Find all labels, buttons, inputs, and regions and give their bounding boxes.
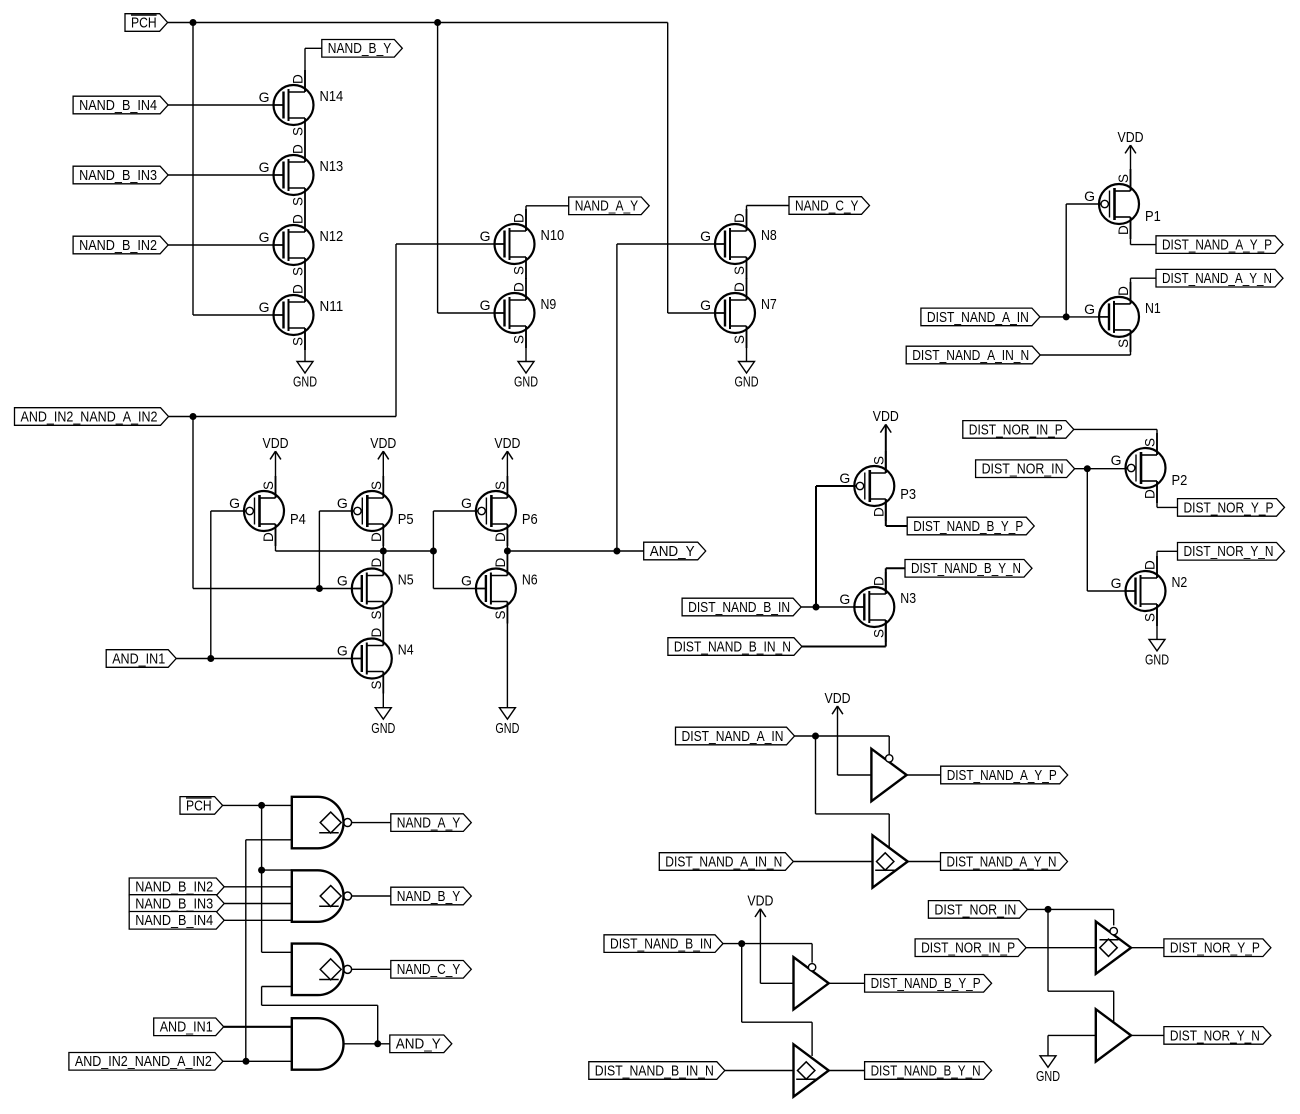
wire AND_IN2 to AND gate [223,1060,292,1062]
svg-text:PCH: PCH [131,15,157,31]
svg-text:G: G [259,89,270,105]
power symbol VDD above P5 [370,436,396,459]
wire N6 source to GND [506,602,508,708]
svg-text:N6: N6 [522,572,538,589]
svg-text:P4: P4 [290,511,306,528]
svg-text:D: D [291,214,306,224]
wire PCH to N7 gate [668,23,725,314]
transistor N9 [480,278,557,348]
hierarchical label DIST_NOR_Y_N [1178,543,1285,561]
svg-text:NAND_C_Y: NAND_C_Y [397,962,461,978]
svg-text:DIST_NAND_A_IN: DIST_NAND_A_IN [682,729,784,745]
svg-text:PCH: PCH [186,798,212,814]
svg-text:DIST_NAND_B_IN_N: DIST_NAND_B_IN_N [674,639,791,655]
svg-text:D: D [369,558,384,568]
svg-text:G: G [1084,188,1095,204]
wire P5 gate from N5 gate [319,511,353,589]
svg-text:N1: N1 [1145,300,1161,317]
wire NAND_C_Y to N8 drain [747,206,790,232]
svg-text:N7: N7 [761,296,777,313]
svg-text:NAND_B_IN2: NAND_B_IN2 [79,238,157,254]
svg-text:DIST_NAND_A_IN_N: DIST_NAND_A_IN_N [665,854,782,870]
svg-text:GND: GND [514,375,538,391]
svg-text:GND: GND [371,721,395,737]
wire DIST_NAND_B_IN to buffer B_N top pin [742,944,812,1056]
wire VDD to buffer B_P input [760,909,793,984]
hierarchical label DIST_NAND_B_IN_N [668,638,802,656]
hierarchical label DIST_NAND_A_IN buffer [676,727,795,745]
svg-text:G: G [839,470,850,486]
svg-text:S: S [291,337,306,346]
junction DIST_NOR_IN buffer [1045,906,1052,913]
hierarchical label DIST_NOR_Y_P buffer [1164,939,1271,957]
wire buffer out to DIST_NOR_Y_P [1131,947,1164,949]
hierarchical label AND_IN1 [106,650,176,668]
svg-text:D: D [261,532,276,542]
svg-text:D: D [512,282,527,292]
svg-text:NAND_B_IN2: NAND_B_IN2 [135,880,213,896]
hierarchical label DIST_NAND_B_Y_N buffer [865,1062,992,1080]
hierarchical label AND_IN2_NAND_A_IN2 gates [69,1053,223,1071]
svg-text:GND: GND [735,375,759,391]
and gate AND_D [292,1018,344,1069]
hierarchical label DIST_NOR_IN_P [963,421,1074,439]
wire vertical AND_Y to N8 gate [616,244,618,551]
wire NAND_A input B [246,839,292,841]
svg-text:NAND_B_Y: NAND_B_Y [397,889,461,905]
wire AND_IN1 to P4 gate [211,511,246,659]
wire to N6 gate [433,588,486,590]
svg-text:P6: P6 [522,511,538,528]
transistor P5 [337,476,414,546]
wire NAND_B_IN4 to N14 gate [168,104,284,106]
ground at buffer NOR_N input [1036,1056,1060,1085]
svg-text:NAND_B_IN4: NAND_B_IN4 [79,98,157,114]
svg-text:S: S [871,456,886,465]
svg-text:VDD: VDD [494,436,520,452]
wire DIST_NAND_B_IN to N3 gate [801,606,864,608]
svg-text:D: D [291,144,306,154]
svg-text:G: G [229,495,240,511]
wire NAND_B_Y to N14 drain [305,48,322,92]
hierarchical label NAND_B_IN3 [73,166,168,184]
wire P2 drain to DIST_NOR_Y_P [1157,481,1178,507]
hierarchical label NAND_B_IN4 [73,96,168,114]
svg-text:G: G [337,573,348,589]
wire N2 source to GND [1156,604,1158,639]
wire buffer out to DIST_NOR_Y_N [1131,1034,1164,1036]
buffer DIST_NOR_Y_N driver [1096,1009,1131,1061]
wire VDD to P1 source [1130,145,1132,191]
svg-text:DIST_NAND_B_IN_N: DIST_NAND_B_IN_N [595,1063,714,1079]
hierarchical label NAND_B_Y [322,40,403,58]
svg-text:VDD: VDD [873,409,899,425]
junction DIST_NAND_B_IN buffer [738,940,745,947]
svg-text:VDD: VDD [370,436,396,452]
buffer DIST_NOR_Y_P driver [1096,922,1131,974]
svg-text:DIST_NAND_B_Y_P: DIST_NAND_B_Y_P [913,519,1023,535]
svg-text:D: D [512,213,527,223]
wire DIST_NOR_IN_P to buffer NOR_P input [1026,947,1096,949]
hierarchical label DIST_NAND_A_IN_N [906,346,1040,364]
svg-text:G: G [480,297,491,313]
svg-text:AND_Y: AND_Y [396,1037,441,1053]
wire AND_Y horizontal [507,550,643,552]
hierarchical label PCH [125,14,168,32]
hierarchical label NAND_C_Y gates [391,961,472,979]
svg-text:G: G [700,297,711,313]
transistor N5 [337,554,414,624]
svg-text:NAND_B_IN3: NAND_B_IN3 [79,168,157,184]
svg-text:S: S [1143,613,1158,622]
svg-text:GND: GND [1145,653,1169,669]
power symbol VDD above P1 [1118,130,1144,153]
svg-text:G: G [839,591,850,607]
wire PCH vertical to NAND_C input A [262,805,292,952]
junction PCH to NAND_B [258,867,265,874]
hierarchical label DIST_NOR_IN [976,460,1075,478]
transistor N11 [259,280,344,350]
svg-text:N12: N12 [320,228,344,245]
svg-text:S: S [493,481,508,490]
svg-text:G: G [1111,452,1122,468]
transistor N4 [337,624,414,694]
svg-text:VDD: VDD [825,691,851,707]
svg-text:AND_IN1: AND_IN1 [112,651,165,667]
svg-text:S: S [369,680,384,689]
svg-text:VDD: VDD [747,894,773,910]
svg-text:N3: N3 [900,590,916,607]
svg-text:G: G [337,643,348,659]
wire NAND_B_IN3 to NAND_B [224,903,292,905]
wire PCH horizontal net [168,22,668,24]
svg-text:P1: P1 [1145,208,1161,225]
wire DIST_NOR_Y_N to N2 drain [1157,551,1178,578]
transistor N13 [259,140,344,210]
wire NAND_A output [352,822,391,824]
buffer DIST_NAND_B_Y_P driver [794,957,829,1009]
svg-text:P2: P2 [1172,472,1188,489]
svg-text:D: D [291,74,306,84]
svg-text:DIST_NAND_A_Y_N: DIST_NAND_A_Y_N [947,854,1057,870]
svg-text:GND: GND [1036,1069,1060,1085]
wire PCH to NAND_A input A [223,804,292,806]
power symbol VDD above P3 [873,409,899,432]
wire buffer out to DIST_NAND_B_Y_N [829,1070,865,1072]
junction DIST_NAND_A_IN buffer [812,733,819,740]
nand gate NAND_C [292,944,352,996]
svg-text:GND: GND [495,721,519,737]
transistor N8 [700,209,777,279]
wire NAND_B_IN2 to N12 gate [168,244,284,246]
hierarchical label DIST_NOR_Y_N buffer [1164,1027,1271,1045]
wire AND_IN1 to AND gate [224,1026,292,1028]
svg-text:S: S [512,266,527,275]
svg-text:S: S [732,335,747,344]
wire DIST_NAND_B_IN_N to N3 source [802,620,886,647]
wire DIST_NAND_B_Y_N to N3 drain [886,568,905,594]
wire DIST_NOR_IN to buffer NOR_N top pin [1048,909,1114,1022]
wire buffer out to DIST_NAND_A_Y_N [908,861,941,863]
wire PCH to N11 gate [193,23,284,316]
svg-text:DIST_NOR_Y_N: DIST_NOR_Y_N [1170,1028,1260,1044]
ground below N4 [371,708,395,737]
wire NAND_A_Y to N10 drain [526,206,569,231]
junction AND_IN2 branch [190,413,197,420]
svg-text:AND_Y: AND_Y [650,544,695,560]
junction DIST_NOR_IN [1084,465,1091,472]
wire AND output [344,1043,390,1045]
transistor P6 [461,476,538,546]
wire DIST_NAND_B_IN to P3 gate [816,486,856,607]
wire NAND_C output [352,968,391,970]
power symbol VDD above P6 [494,436,520,459]
wire NAND_B_IN4 to NAND_B [224,919,292,921]
svg-text:G: G [259,299,270,315]
wire N9 source to GND [525,326,527,362]
wire DIST_NAND_A_IN to buffer A_N top pin [816,736,890,848]
svg-text:NAND_B_Y: NAND_B_Y [328,41,392,57]
wire P1 drain to DIST_NAND_A_Y_P [1131,217,1157,245]
svg-text:G: G [1111,575,1122,591]
svg-text:D: D [291,284,306,294]
svg-text:AND_IN2_NAND_A_IN2: AND_IN2_NAND_A_IN2 [75,1054,212,1070]
svg-text:D: D [369,532,384,542]
hierarchical label DIST_NOR_IN buffer [928,901,1027,919]
svg-text:N5: N5 [398,572,414,589]
svg-text:AND_IN2_NAND_A_IN2: AND_IN2_NAND_A_IN2 [21,409,158,425]
svg-text:P3: P3 [900,486,916,503]
junction DIST_NAND_B_IN [813,604,820,611]
svg-text:G: G [259,229,270,245]
hierarchical label NAND_B_IN2 [73,236,168,254]
svg-text:D: D [732,213,747,223]
hierarchical label AND_IN1 gates [154,1018,224,1036]
svg-text:DIST_NAND_B_Y_P: DIST_NAND_B_Y_P [871,976,981,992]
hierarchical label DIST_NAND_B_Y_P buffer [865,975,992,993]
junction AND output [374,1040,381,1047]
svg-text:N13: N13 [320,158,344,175]
wire DIST_NAND_A_IN_N to N1 source [1040,330,1130,355]
junction PCH gates [258,802,265,809]
hierarchical label AND_IN2_NAND_A_IN2 [15,408,169,426]
hierarchical label DIST_NAND_B_IN_N buffer [589,1062,725,1080]
buffer DIST_NAND_B_Y_N driver [794,1044,829,1096]
svg-text:N4: N4 [398,642,414,659]
wire AND_IN2 to N10 gate [169,244,505,417]
svg-text:DIST_NAND_B_Y_N: DIST_NAND_B_Y_N [911,561,1021,577]
svg-text:S: S [1116,339,1131,348]
wire P6/N6 gate vertical [432,511,434,589]
svg-text:P5: P5 [398,511,414,528]
svg-text:DIST_NAND_A_Y_N: DIST_NAND_A_Y_N [1162,271,1272,287]
wire DIST_NOR_IN to N2 gate [1087,469,1135,591]
svg-text:S: S [1143,438,1158,447]
svg-text:VDD: VDD [263,436,289,452]
hierarchical label NAND_B_IN3 gates [129,895,224,913]
wire AND_Y feedback to NAND_C [262,987,378,1044]
power symbol VDD above P4 [263,436,289,459]
svg-text:DIST_NOR_Y_P: DIST_NOR_Y_P [1170,941,1260,957]
ground below N7 [735,362,759,391]
svg-text:DIST_NAND_B_Y_N: DIST_NAND_B_Y_N [871,1063,981,1079]
transistor N14 [259,70,344,140]
svg-text:D: D [1143,489,1158,499]
wire P6 drain to N6 drain [506,524,508,576]
transistor N10 [480,209,565,279]
buffer DIST_NAND_A_Y_N driver [873,835,908,887]
wire AND_IN1 to N4 gate [176,658,362,660]
wire P4 drain to inverter input node [276,524,434,551]
wire DIST_NAND_A_Y_N to N1 drain [1131,278,1157,304]
wire VDD to P3 source [885,424,887,473]
junction AND_IN1 branch [207,655,214,662]
wire NAND_C input B [262,986,292,988]
hierarchical label DIST_NOR_Y_P [1178,499,1285,517]
junction stage1 drains [380,548,387,555]
svg-text:G: G [461,573,472,589]
ground below N6 [495,708,519,737]
wire PCH to N9 gate [438,23,505,314]
transistor N12 [259,210,344,280]
nand gate NAND_B [292,870,352,922]
svg-text:DIST_NAND_A_Y_P: DIST_NAND_A_Y_P [947,768,1057,784]
junction AND_IN2 to NAND_A [243,1058,250,1065]
wire DIST_NAND_A_IN_N to buffer A_N input [793,861,872,863]
svg-text:S: S [369,481,384,490]
wire NAND_B output [352,895,391,897]
ground below N9 [514,362,538,391]
svg-text:NAND_A_Y: NAND_A_Y [397,816,461,832]
svg-text:NAND_B_IN4: NAND_B_IN4 [135,913,213,929]
svg-text:S: S [261,481,276,490]
hierarchical label NAND_C_Y [789,197,870,215]
svg-text:DIST_NAND_A_IN_N: DIST_NAND_A_IN_N [912,348,1029,364]
svg-text:NAND_B_IN3: NAND_B_IN3 [135,896,213,912]
junction AND_Y at P6/N6 drains [504,548,511,555]
svg-text:DIST_NAND_B_IN: DIST_NAND_B_IN [688,600,790,616]
wire NAND_A input B vertical to AND_IN2 [245,840,247,1062]
svg-text:D: D [732,282,747,292]
wire buffer out to DIST_NAND_B_Y_P [829,982,865,984]
buffer DIST_NAND_A_Y_P driver [871,749,906,801]
wire N4 source to GND [382,672,384,708]
svg-text:S: S [512,335,527,344]
wire VDD to buffer A_P input [838,706,872,775]
svg-text:DIST_NAND_B_IN: DIST_NAND_B_IN [610,937,712,953]
power symbol VDD at buffer A [825,691,851,714]
wire DIST_NOR_IN to buffer NOR_P bubble [1027,909,1113,925]
wire AND_IN2 to N5 gate [193,417,362,589]
svg-text:DIST_NOR_IN: DIST_NOR_IN [934,902,1016,918]
svg-text:S: S [1116,174,1131,183]
svg-text:S: S [291,127,306,136]
transistor N2 [1111,556,1188,626]
svg-text:G: G [1084,301,1095,317]
wire N8 gate to AND_Y node [617,243,725,245]
junction AND_Y to N8 gate branch [613,548,620,555]
svg-text:DIST_NOR_Y_P: DIST_NOR_Y_P [1184,500,1274,516]
wire DIST_NOR_IN to P2 gate [1075,468,1128,470]
wire DIST_NAND_A_IN to N1 gate [1040,316,1109,318]
svg-text:DIST_NOR_Y_N: DIST_NOR_Y_N [1184,544,1274,560]
transistor N1 [1084,282,1161,352]
svg-text:D: D [369,628,384,638]
hierarchical label NAND_B_IN2 gates [129,878,224,896]
svg-text:N10: N10 [541,227,565,244]
svg-text:NAND_C_Y: NAND_C_Y [795,198,859,214]
junction P5/N5 gate tie [316,585,323,592]
svg-text:D: D [1116,286,1131,296]
wire P5 drain to N5 drain [382,524,384,576]
transistor P2 [1111,433,1188,503]
wire DIST_NAND_B_IN to buffer B_P bubble [723,944,812,963]
wire VDD to PMOS source at x=275.5 [275,451,277,498]
svg-text:D: D [871,576,886,586]
svg-text:N8: N8 [761,227,777,244]
svg-text:G: G [259,159,270,175]
hierarchical label AND_Y gates [390,1035,452,1053]
transistor N3 [839,572,916,642]
svg-text:S: S [871,629,886,638]
hierarchical label DIST_NAND_B_Y_P [907,517,1034,535]
transistor P3 [839,451,916,521]
transistor P4 [229,476,306,546]
wire GND stub [1047,1035,1049,1055]
wire to P6 gate [433,510,477,512]
svg-text:D: D [1143,560,1158,570]
svg-text:G: G [480,228,491,244]
svg-text:DIST_NOR_IN_P: DIST_NOR_IN_P [921,941,1015,957]
junction PCH / N9 branch [434,19,441,26]
junction DIST_NAND_A_IN [1063,313,1070,320]
transistor N6 [461,554,538,624]
hierarchical label PCH gates [180,797,223,815]
svg-text:GND: GND [293,375,317,391]
hierarchical label DIST_NAND_A_Y_N [1156,269,1283,287]
wire DIST_NAND_B_IN_N to buffer B_N input [725,1070,794,1072]
svg-text:G: G [700,228,711,244]
svg-text:N9: N9 [541,296,557,313]
junction PCH / N11 branch [190,19,197,26]
svg-text:D: D [871,507,886,517]
hierarchical label DIST_NAND_A_Y_P buffer [941,766,1068,784]
svg-text:VDD: VDD [1118,130,1144,146]
wire PCH to NAND_B input A [262,869,292,871]
hierarchical label DIST_NAND_B_Y_N [905,560,1032,578]
svg-text:DIST_NOR_IN: DIST_NOR_IN [982,462,1064,478]
svg-text:N11: N11 [320,298,344,315]
transistor N7 [700,278,777,348]
svg-text:NAND_A_Y: NAND_A_Y [575,199,639,215]
wire VDD to PMOS source at x=383.3 [382,451,384,498]
hierarchical label NAND_A_Y [569,197,650,215]
wire buffer out to DIST_NAND_A_Y_P [907,774,941,776]
power symbol VDD at buffer B [747,894,773,917]
ground below N2 [1145,639,1169,668]
wire N7 source to GND [746,326,748,362]
svg-text:S: S [369,610,384,619]
wire P3 drain to DIST_NAND_B_Y_P [886,499,907,526]
hierarchical label DIST_NAND_A_Y_P [1156,236,1283,254]
hierarchical label DIST_NAND_B_IN [682,598,801,616]
nand gate NAND_A [292,797,352,849]
svg-text:S: S [291,267,306,276]
svg-text:G: G [461,495,472,511]
svg-text:DIST_NOR_IN_P: DIST_NOR_IN_P [969,422,1063,438]
svg-text:S: S [291,197,306,206]
hierarchical label NAND_B_IN4 gates [129,912,224,930]
